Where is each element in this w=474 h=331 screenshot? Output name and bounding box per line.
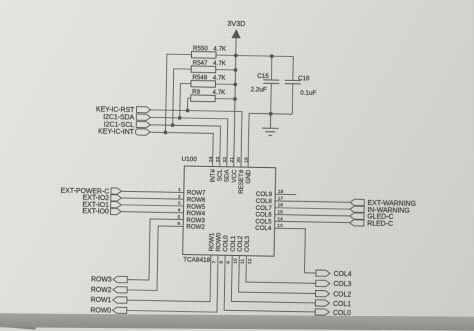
- wire I2C1-SDA to U100: [150, 117, 228, 166]
- net flag ROW0: [113, 307, 127, 313]
- junction C15 top / 3V3D wire: [270, 54, 274, 58]
- junction R550 drop onto net: [163, 131, 167, 135]
- net flag ROW1: [113, 297, 127, 303]
- net flag KEY-IC-RST: [137, 106, 151, 112]
- resistor R9 4.7K: [191, 95, 216, 102]
- wire C16 bottom lead: [291, 84, 294, 114]
- wire U100 pin 17 to EXT-WARNING: [275, 201, 350, 202]
- wire U100 COL2 to COL2 flag: [239, 256, 317, 294]
- net flag COL2: [315, 291, 329, 297]
- capacitor C16 0.1uF: [285, 80, 301, 84]
- svg-text:COL3: COL3: [333, 281, 351, 288]
- svg-text:TCA8418: TCA8418: [183, 257, 211, 265]
- junction R550 / 3V3D rail: [234, 54, 238, 58]
- net flag COL3: [316, 280, 330, 286]
- svg-text:0.1uF: 0.1uF: [300, 90, 316, 97]
- svg-text:ROW2: ROW2: [91, 287, 112, 294]
- ground symbol: [262, 114, 279, 136]
- junction ground rail / C15-ground stem: [269, 112, 273, 116]
- wire stub U100 pin 18 COL9: [275, 193, 296, 195]
- wire U100 pin5 ROW3 down to flag: [127, 219, 183, 281]
- svg-text:11: 11: [240, 259, 246, 264]
- svg-text:EXT-IO0: EXT-IO0: [82, 208, 109, 215]
- wire EXT-IO1 to U100 pin 3: [121, 205, 183, 206]
- svg-text:COL1: COL1: [333, 301, 351, 308]
- net flag GLED-C: [350, 213, 364, 219]
- op IC U100 TCA8418 body: [183, 166, 276, 256]
- junction R547 / 3V3D rail: [234, 68, 238, 72]
- net flag COL4: [316, 270, 330, 276]
- svg-text:GND: GND: [245, 169, 252, 183]
- wire 3V3D rail to C15/C16 tops: [236, 55, 293, 56]
- wire R548 left end down to net row: [180, 83, 191, 118]
- wire U100 pin 14 to RLED-C: [275, 221, 350, 222]
- wire GND pin 19 up and right to ground rail: [248, 113, 292, 168]
- resistor R550 4.7K: [191, 51, 216, 58]
- svg-text:9: 9: [226, 261, 232, 264]
- svg-text:COL0: COL0: [333, 310, 351, 317]
- net flag RLED-C: [350, 220, 364, 226]
- svg-text:U100: U100: [181, 156, 197, 163]
- wire U100 pin6 ROW2 down to flag: [127, 225, 183, 291]
- svg-text:I2C1-SCL: I2C1-SCL: [104, 121, 135, 129]
- net flag COL0: [315, 309, 329, 315]
- power symbol 3V3D arrow: [232, 29, 241, 38]
- junction R548 / 3V3D rail: [233, 83, 237, 87]
- svg-text:KEY-IC-INT: KEY-IC-INT: [98, 129, 135, 137]
- resistor R548 4.7K: [191, 80, 216, 87]
- net flag ROW3: [113, 276, 127, 282]
- net flag ROW2: [113, 287, 127, 293]
- svg-text:24: 24: [208, 156, 214, 162]
- wire U100 COL0 to COL0 flag: [224, 255, 316, 312]
- svg-text:COL4: COL4: [255, 225, 272, 232]
- wire EXT-POWER-C to U100 pin 1: [121, 191, 183, 192]
- net flag KEY-IC-INT: [135, 129, 150, 135]
- wire R547 left end down to net row: [173, 69, 192, 126]
- svg-text:23: 23: [215, 156, 221, 162]
- wire KEY-IC-INT to U100: [150, 132, 214, 166]
- net flag I2C1-SDA: [136, 114, 150, 120]
- svg-text:COL3: COL3: [244, 235, 251, 252]
- wire U100 pin 15 to GLED-C: [275, 215, 350, 216]
- junction R9 / 3V3D rail: [233, 97, 237, 101]
- junction R9 drop onto net: [186, 109, 190, 113]
- junction R548 drop onto net: [178, 116, 182, 120]
- wire U100 pin7 ROW1 to flag: [127, 253, 211, 301]
- svg-text:KEY-IC-RST: KEY-IC-RST: [96, 106, 135, 114]
- svg-text:ROW0: ROW0: [90, 307, 111, 314]
- svg-text:COL4: COL4: [334, 271, 352, 278]
- net flag EXT-IO0: [111, 208, 122, 214]
- net flag EXT-POWER-C: [111, 188, 122, 194]
- junction R547 drop onto net: [171, 123, 175, 127]
- svg-text:20: 20: [236, 157, 242, 163]
- svg-text:R9: R9: [192, 89, 201, 96]
- net flag IN-WARNING: [350, 206, 364, 212]
- svg-text:R547: R547: [193, 60, 208, 67]
- svg-text:ROW3: ROW3: [91, 276, 112, 283]
- wire C15 bottom lead: [270, 83, 273, 113]
- svg-text:R550: R550: [193, 45, 208, 52]
- wire R548 right end to 3V3D rail: [215, 83, 235, 85]
- svg-text:4.7K: 4.7K: [213, 75, 227, 82]
- svg-text:COL2: COL2: [333, 291, 351, 298]
- svg-text:RLED-C: RLED-C: [367, 220, 393, 227]
- net flag I2C1-SCL: [136, 121, 150, 127]
- svg-text:2.2uF: 2.2uF: [250, 86, 266, 93]
- svg-text:4.7K: 4.7K: [213, 89, 227, 96]
- svg-text:22: 22: [222, 157, 228, 163]
- wire U100 COL1 to COL1 flag: [231, 255, 316, 302]
- wire C16 top lead: [292, 57, 294, 81]
- wire R9 left end down to net row: [188, 98, 191, 111]
- svg-text:I2C1-SDA: I2C1-SDA: [103, 114, 135, 122]
- wire R547 right end to 3V3D rail: [216, 69, 236, 71]
- wire U100 pin8 ROW0 to flag: [127, 253, 218, 312]
- net flag EXT-IO1: [111, 202, 122, 208]
- wire C15 top lead: [270, 56, 272, 80]
- svg-text:R548: R548: [192, 74, 207, 81]
- svg-text:12: 12: [247, 258, 253, 264]
- svg-text:4.7K: 4.7K: [213, 60, 227, 67]
- wire EXT-IO2 to U100 pin 2: [121, 198, 183, 199]
- wire EXT-IO0 to U100 pin 4: [121, 212, 183, 213]
- net flag EXT-IO2: [111, 195, 122, 201]
- wire KEY-IC-RST to U100: [150, 110, 242, 167]
- svg-text:7: 7: [211, 260, 217, 263]
- net flag COL1: [315, 300, 329, 306]
- wire R550 left end down to net row: [165, 54, 191, 133]
- wire U100 pin13 COL4 to flag: [274, 228, 317, 273]
- wire I2C1-SCL to U100: [150, 125, 221, 167]
- wire R550 right end to 3V3D rail: [216, 54, 236, 56]
- capacitor C15 2.2uF: [263, 80, 279, 84]
- svg-text:ROW2: ROW2: [186, 224, 205, 231]
- svg-text:19: 19: [243, 157, 249, 163]
- svg-text:8: 8: [218, 261, 224, 264]
- resistor R547 4.7K: [191, 66, 216, 73]
- wire R9 right end to 3V3D rail: [215, 98, 235, 100]
- svg-text:21: 21: [229, 157, 235, 163]
- svg-text:ROW1: ROW1: [91, 297, 112, 304]
- svg-text:10: 10: [233, 258, 239, 264]
- wire U100 COL3 to COL3 flag: [246, 256, 316, 284]
- svg-text:3V3D: 3V3D: [227, 19, 245, 28]
- net flag EXT-WARNING: [350, 199, 364, 205]
- wire 3V3D rail down to U100 VCC pin 21: [234, 38, 236, 167]
- wire U100 pin 16 to IN-WARNING: [275, 208, 350, 209]
- svg-text:C15: C15: [257, 73, 269, 80]
- svg-text:C16: C16: [298, 75, 310, 82]
- svg-text:4.7K: 4.7K: [213, 46, 227, 53]
